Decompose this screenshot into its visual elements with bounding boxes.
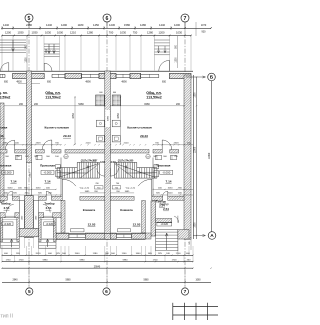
svg-text:Комната: Комната: [120, 208, 133, 212]
svg-text:1030: 1030: [176, 31, 182, 35]
svg-text:1180: 1180: [93, 253, 98, 255]
svg-text:тип II: тип II: [1, 314, 13, 320]
svg-text:1700: 1700: [176, 253, 182, 255]
svg-text:1100: 1100: [122, 253, 127, 255]
svg-text:1730: 1730: [6, 260, 12, 262]
svg-text:1700: 1700: [172, 260, 178, 262]
svg-text:1440: 1440: [46, 23, 52, 27]
svg-text:200: 200: [34, 103, 39, 106]
svg-text:-0.020: -0.020: [4, 222, 12, 226]
svg-text:2940: 2940: [12, 280, 18, 282]
svg-text:650: 650: [4, 81, 9, 84]
svg-text:1200: 1200: [174, 23, 180, 27]
svg-text:2.54: 2.54: [159, 204, 165, 208]
svg-text:3450: 3450: [72, 113, 75, 119]
svg-text:6: 6: [106, 16, 109, 22]
svg-text:1440: 1440: [3, 23, 9, 27]
svg-text:6: 6: [105, 289, 108, 295]
svg-text:5980: 5980: [80, 260, 86, 262]
svg-text:1030: 1030: [18, 31, 24, 35]
svg-text:4830: 4830: [16, 81, 22, 84]
svg-text:1070: 1070: [201, 24, 207, 27]
svg-text:4890: 4890: [121, 81, 127, 84]
svg-text:3,59м2: 3,59м2: [0, 95, 11, 99]
svg-text:(2)17х174х300: (2)17х174х300: [81, 159, 97, 162]
svg-text:2.54: 2.54: [46, 206, 52, 210]
svg-text:2120: 2120: [124, 143, 130, 145]
svg-text:113,59м2: 113,59м2: [45, 95, 60, 99]
svg-text:650: 650: [162, 81, 167, 84]
svg-text:700: 700: [109, 31, 114, 35]
svg-text:1200: 1200: [159, 31, 165, 35]
svg-text:5: 5: [28, 16, 31, 22]
svg-text:2020: 2020: [168, 192, 174, 194]
svg-text:4.03: 4.03: [110, 160, 116, 164]
svg-text:Комната: Комната: [83, 208, 96, 212]
svg-text:-0.000: -0.000: [162, 171, 170, 175]
svg-text:1230: 1230: [109, 23, 115, 27]
svg-text:2303: 2303: [36, 143, 42, 145]
svg-text:2480: 2480: [26, 23, 32, 27]
svg-text:113,59м2: 113,59м2: [146, 95, 161, 99]
svg-text:1200: 1200: [26, 57, 28, 63]
svg-text:~пор.+1.2м: ~пор.+1.2м: [79, 188, 90, 190]
svg-text:1280: 1280: [140, 23, 146, 27]
svg-text:5980: 5980: [143, 280, 149, 282]
svg-text:930: 930: [202, 31, 207, 34]
svg-text:1200: 1200: [176, 57, 178, 63]
svg-text:29540: 29540: [94, 266, 101, 268]
svg-text:12.03: 12.03: [133, 223, 141, 227]
svg-text:43: 43: [0, 134, 4, 138]
svg-text:1180: 1180: [78, 23, 84, 27]
svg-text:1290: 1290: [61, 23, 67, 27]
svg-text:А: А: [210, 233, 214, 239]
svg-text:200: 200: [19, 103, 24, 106]
svg-text:5980: 5980: [43, 260, 49, 262]
svg-text:1050: 1050: [36, 188, 42, 190]
svg-text:2020: 2020: [36, 253, 42, 255]
svg-text:11960: 11960: [208, 152, 211, 159]
svg-text:-0.000: -0.000: [4, 171, 12, 175]
svg-text:1700: 1700: [153, 260, 159, 262]
svg-text:7.14: 7.14: [10, 179, 16, 183]
svg-text:Тамбур: Тамбур: [0, 202, 10, 206]
svg-text:Тамбур: Тамбур: [44, 202, 54, 206]
svg-text:4890: 4890: [85, 81, 91, 84]
svg-text:5980: 5980: [108, 115, 110, 121]
svg-text:12.03: 12.03: [88, 223, 96, 227]
svg-text:200: 200: [176, 103, 181, 106]
svg-text:5980: 5980: [65, 280, 71, 282]
svg-text:2020: 2020: [25, 192, 31, 194]
svg-text:29.43: 29.43: [140, 134, 148, 138]
svg-text:1540: 1540: [75, 253, 81, 255]
svg-text:1200: 1200: [195, 92, 197, 98]
svg-text:1500: 1500: [195, 222, 197, 228]
svg-text:5480: 5480: [78, 103, 84, 106]
svg-text:1050: 1050: [168, 188, 174, 190]
svg-text:Прихожая: Прихожая: [40, 164, 55, 168]
svg-text:овая: овая: [0, 126, 7, 130]
svg-text:рихожая: рихожая: [0, 164, 12, 168]
svg-text:1280: 1280: [147, 31, 153, 35]
svg-text:Кухня-столовая: Кухня-столовая: [45, 126, 69, 130]
svg-text:-0.000: -0.000: [44, 171, 52, 175]
svg-text:(2)17х174х300: (2)17х174х300: [118, 159, 134, 162]
svg-text:Общ. пл.: Общ. пл.: [45, 91, 61, 95]
svg-text:11560: 11560: [195, 146, 197, 153]
svg-text:1700: 1700: [19, 260, 25, 262]
svg-text:Кухня-столовая: Кухня-столовая: [127, 126, 151, 130]
svg-text:1030: 1030: [45, 31, 51, 35]
svg-text:-0.020: -0.020: [161, 222, 169, 226]
svg-text:1210: 1210: [70, 31, 76, 35]
svg-text:1030: 1030: [32, 31, 38, 35]
svg-text:8480: 8480: [144, 103, 150, 106]
svg-text:600: 600: [113, 92, 116, 94]
svg-text:5050: 5050: [8, 188, 14, 190]
svg-text:600: 600: [99, 92, 102, 94]
svg-text:1280: 1280: [87, 31, 93, 35]
svg-text:1200: 1200: [5, 31, 11, 35]
svg-text:4.03: 4.03: [100, 160, 106, 164]
svg-text:1000: 1000: [57, 31, 63, 35]
svg-text:29.43: 29.43: [63, 134, 71, 138]
svg-text:-0.020: -0.020: [46, 222, 54, 226]
svg-text:7: 7: [184, 289, 187, 295]
svg-text:1440: 1440: [159, 23, 165, 27]
svg-text:Б: Б: [210, 75, 214, 81]
svg-text:7: 7: [184, 16, 187, 22]
svg-text:1060: 1060: [195, 280, 201, 282]
svg-text:650: 650: [47, 81, 52, 84]
svg-text:1450: 1450: [93, 23, 99, 27]
svg-text:1580: 1580: [124, 23, 130, 27]
svg-text:1640: 1640: [136, 253, 142, 255]
svg-text:Общ. пл.: Общ. пл.: [146, 91, 162, 95]
svg-text:1030: 1030: [120, 31, 126, 35]
svg-text:~пор.+1.2м: ~пор.+1.2м: [125, 188, 136, 190]
svg-text:7.14: 7.14: [165, 179, 171, 183]
svg-text:5: 5: [28, 289, 31, 295]
svg-text:2343: 2343: [29, 172, 31, 178]
svg-text:5980: 5980: [123, 260, 129, 262]
svg-text:Прихожая: Прихожая: [156, 164, 171, 168]
svg-text:3450: 3450: [117, 113, 120, 119]
svg-text:750: 750: [133, 31, 138, 35]
svg-text:7.14: 7.14: [44, 179, 50, 183]
